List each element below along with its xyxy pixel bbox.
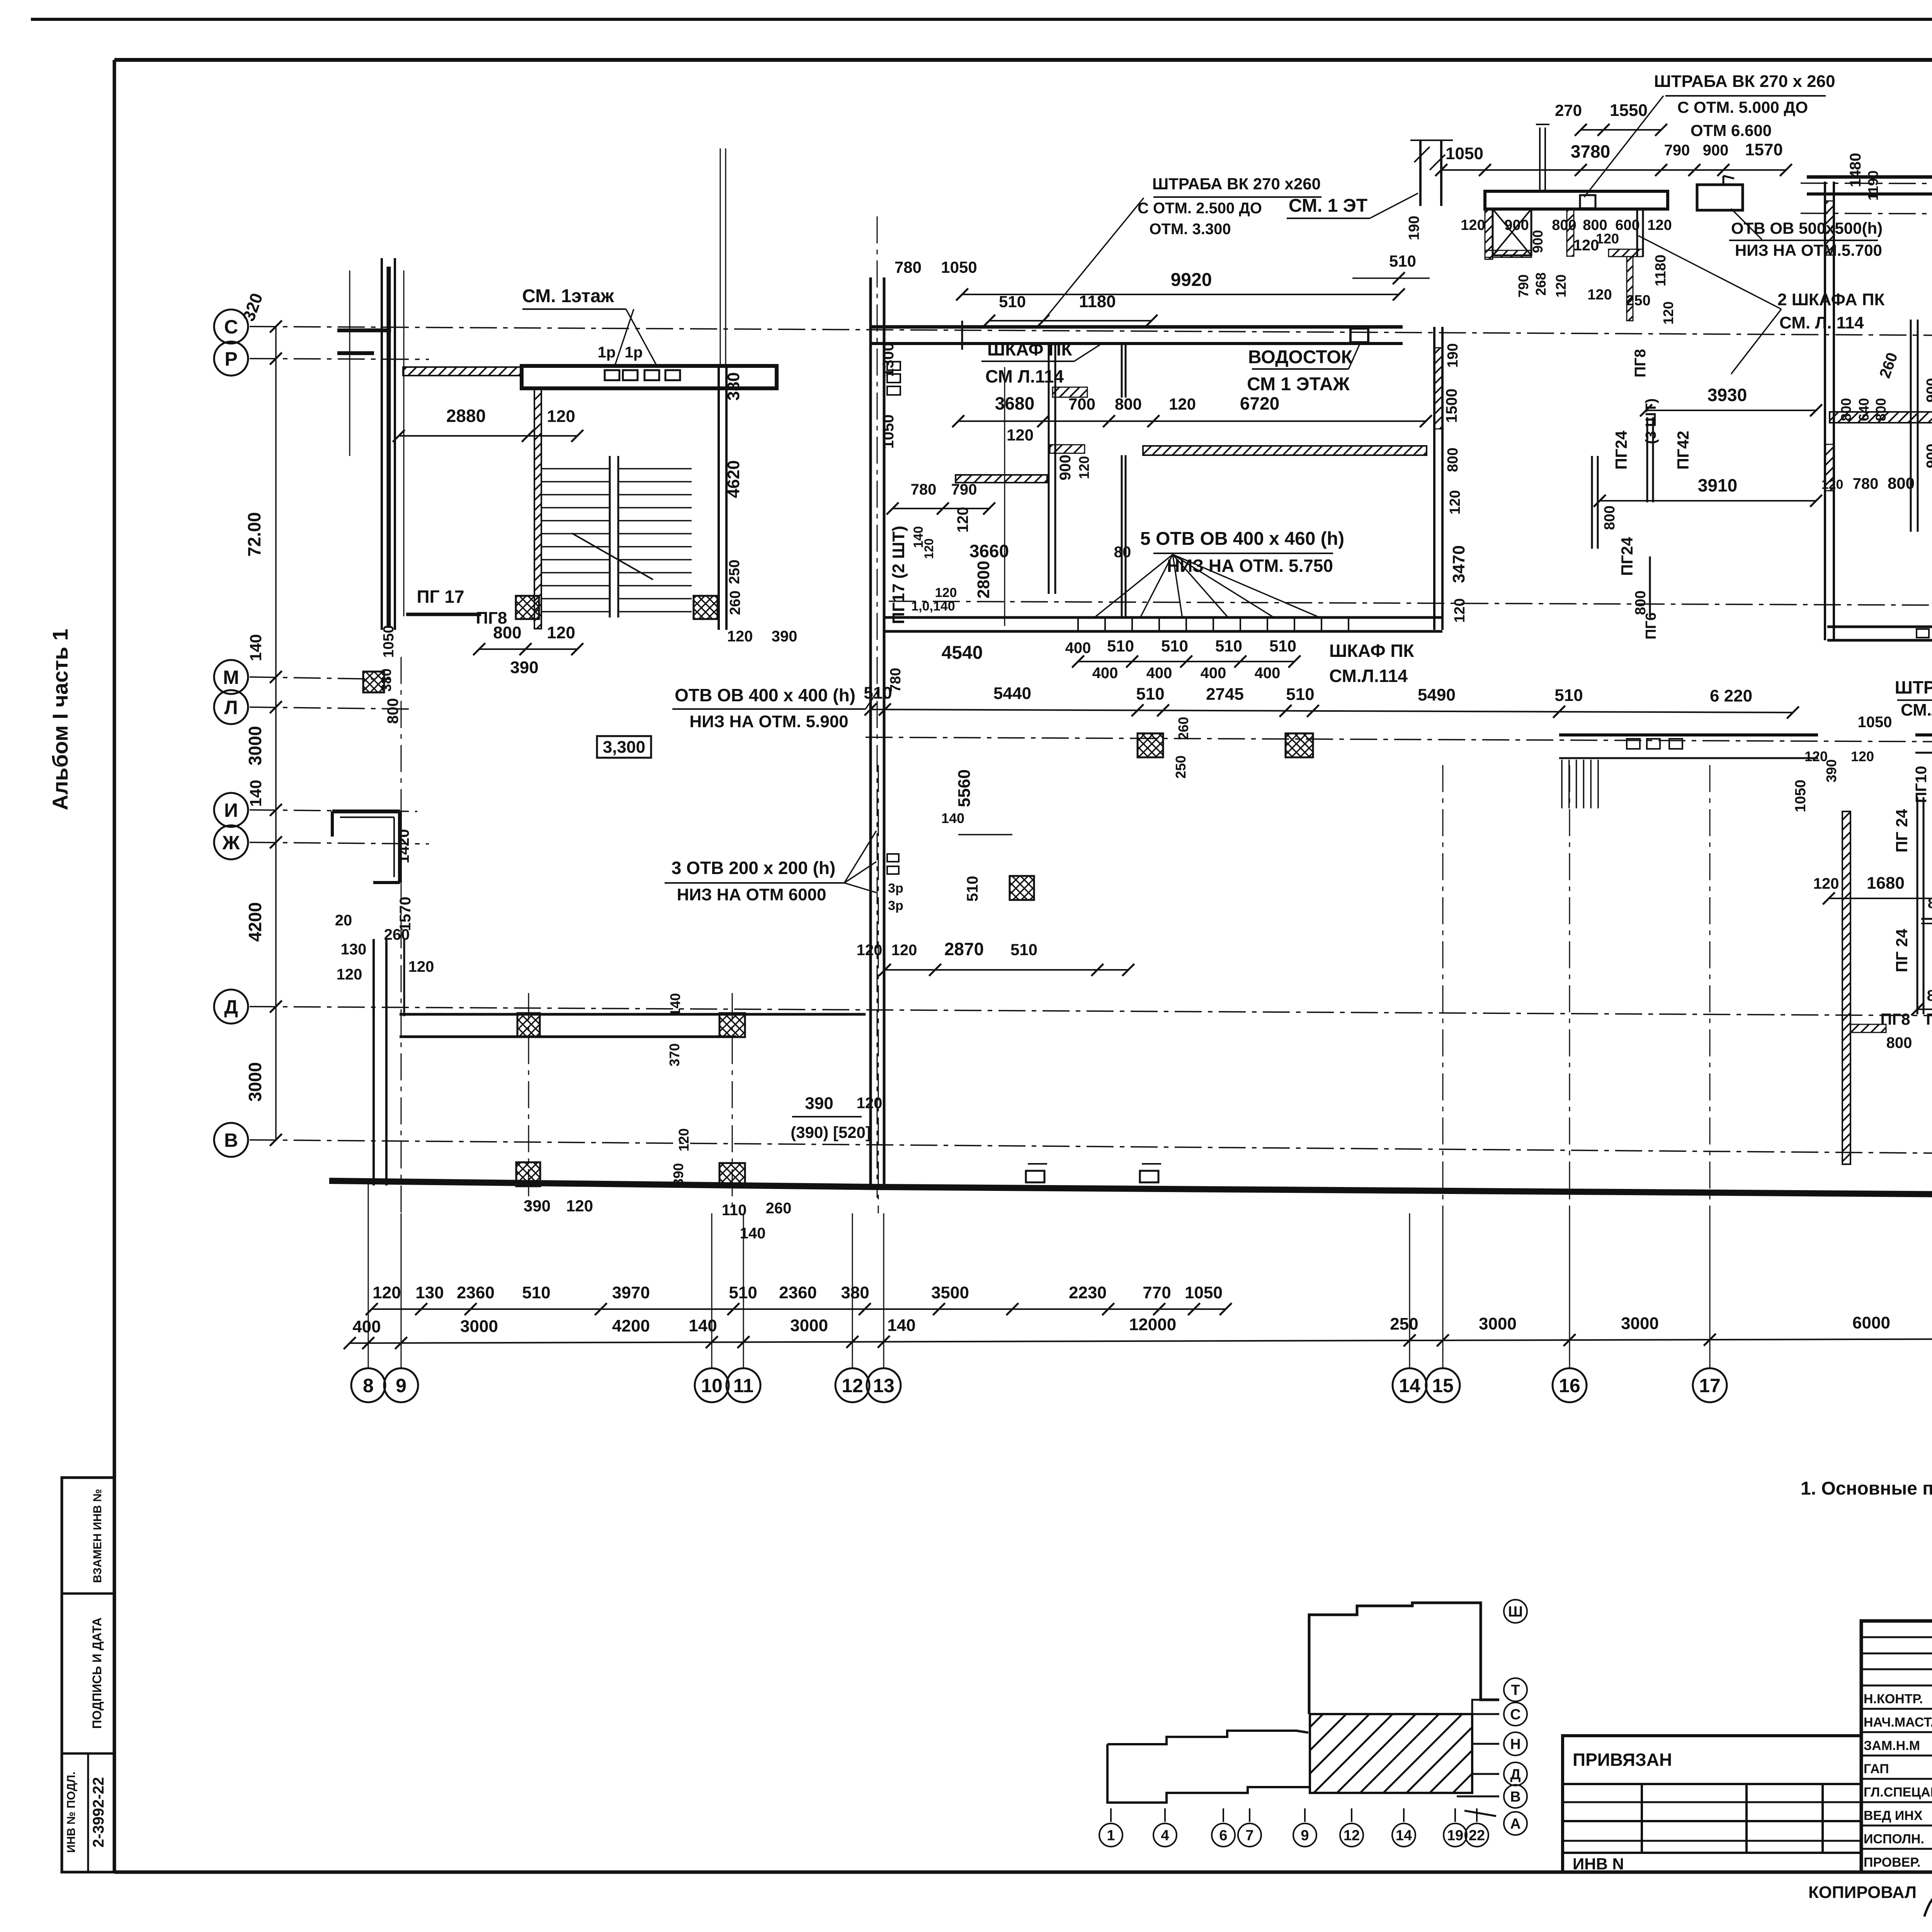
svg-text:400: 400 <box>1092 665 1118 682</box>
svg-text:ОТМ. 3.300: ОТМ. 3.300 <box>1149 221 1231 238</box>
svg-text:СМ Л.114: СМ Л.114 <box>985 366 1064 386</box>
svg-text:390: 390 <box>772 628 798 645</box>
svg-text:140: 140 <box>667 993 683 1016</box>
svg-text:510: 510 <box>522 1283 550 1302</box>
svg-text:120: 120 <box>676 1128 692 1151</box>
svg-text:1050: 1050 <box>381 625 397 658</box>
svg-text:14: 14 <box>1399 1375 1420 1396</box>
dims top vent <box>1441 169 1786 171</box>
key plan letter circles <box>1504 1600 1527 1623</box>
hatched column M row <box>363 672 384 692</box>
svg-text:В: В <box>224 1129 238 1151</box>
svg-text:1570: 1570 <box>1745 140 1783 159</box>
svg-text:ШТРАБА ВК 270 х260: ШТРАБА ВК 270 х260 <box>1152 175 1321 193</box>
svg-text:Л: Л <box>224 697 238 718</box>
svg-text:800: 800 <box>1115 395 1142 413</box>
horizontal PG42 wall <box>1921 918 1932 920</box>
svg-text:А: А <box>1510 1816 1520 1832</box>
svg-text:1050: 1050 <box>1793 780 1809 813</box>
svg-text:260: 260 <box>766 1200 792 1217</box>
svg-text:120: 120 <box>547 407 575 426</box>
vent main band <box>1485 191 1668 209</box>
vertical axis extension lines to bottom circles <box>368 1213 369 1368</box>
svg-text:270: 270 <box>1555 101 1582 119</box>
svg-text:260: 260 <box>727 590 743 615</box>
svg-text:510: 510 <box>1107 637 1134 655</box>
svg-text:СМ.Л.114: СМ.Л.114 <box>1329 666 1408 686</box>
wall: D row double wall <box>400 1013 866 1016</box>
key plan left steps bottom <box>1107 1744 1310 1803</box>
svg-text:12000: 12000 <box>1129 1315 1176 1334</box>
svg-text:В: В <box>1510 1789 1520 1805</box>
svg-text:ПГ-8: ПГ-8 <box>1926 1010 1932 1028</box>
svg-text:510: 510 <box>1286 685 1314 704</box>
K row right walls + stair <box>1559 733 1818 736</box>
svg-text:3680: 3680 <box>995 393 1034 413</box>
svg-text:790: 790 <box>951 481 977 498</box>
hatched columns on V wall <box>516 1162 540 1186</box>
svg-text:С ОТМ. 2.500 ДО: С ОТМ. 2.500 ДО <box>1138 200 1262 217</box>
svg-text:СМ. Л. 114: СМ. Л. 114 <box>1779 313 1864 332</box>
svg-text:8: 8 <box>363 1375 374 1396</box>
svg-text:2800: 2800 <box>974 561 993 599</box>
svg-text:510: 510 <box>864 684 892 702</box>
interior horizontal hatched wall <box>1830 412 1932 423</box>
svg-text:ПГ6: ПГ6 <box>1643 612 1659 639</box>
wall: long hatched corridor wall <box>1143 446 1427 455</box>
svg-text:3930: 3930 <box>1708 385 1747 405</box>
svg-text:700: 700 <box>1068 395 1095 413</box>
wall: short hatched wall <box>956 475 1047 483</box>
axis line D <box>250 1007 1932 1019</box>
svg-text:640: 640 <box>1856 398 1872 421</box>
svg-text:140: 140 <box>689 1316 717 1335</box>
svg-text:780: 780 <box>911 481 937 498</box>
svg-text:12: 12 <box>842 1375 863 1396</box>
wall: left block verticals <box>372 939 375 1185</box>
svg-text:9: 9 <box>1301 1828 1309 1844</box>
svg-text:120: 120 <box>922 538 936 559</box>
svg-text:250: 250 <box>1626 293 1650 309</box>
svg-text:ПОДПИСЬ И ДАТА: ПОДПИСЬ И ДАТА <box>90 1617 104 1729</box>
svg-text:120: 120 <box>935 585 957 600</box>
key plan left steps top <box>1107 1731 1308 1744</box>
svg-text:ВЗАМЕН ИНВ №: ВЗАМЕН ИНВ № <box>91 1489 104 1583</box>
wall: stair left hatched wall <box>534 388 541 629</box>
svg-text:1180: 1180 <box>1653 255 1669 286</box>
svg-text:ПГ24: ПГ24 <box>1612 430 1630 469</box>
svg-text:120: 120 <box>1821 477 1844 492</box>
svg-text:140: 140 <box>740 1225 766 1242</box>
axis line V <box>250 1140 1932 1158</box>
svg-text:ПГ10: ПГ10 <box>1913 766 1930 803</box>
svg-text:140: 140 <box>941 810 964 826</box>
svg-text:ВОДОСТОК: ВОДОСТОК <box>1248 347 1353 367</box>
shkaf boxes on hall wall <box>887 362 900 370</box>
svg-text:ИНВ N: ИНВ N <box>1573 1855 1624 1873</box>
svg-text:1420: 1420 <box>395 829 412 864</box>
wall: hatched strip to stair <box>403 367 522 376</box>
svg-text:1050: 1050 <box>1858 714 1892 731</box>
svg-text:510: 510 <box>1215 637 1242 655</box>
wall: bottom-right left hatched wall <box>1842 811 1850 1164</box>
bottom axis circles <box>351 1368 385 1402</box>
axis line L <box>250 707 410 709</box>
svg-text:790: 790 <box>1664 142 1690 159</box>
svg-text:Ш: Ш <box>1508 1604 1523 1620</box>
svg-text:390: 390 <box>805 1094 833 1113</box>
title block outer <box>1861 1621 1932 1872</box>
svg-text:3 ОТВ 200 х 200 (h): 3 ОТВ 200 х 200 (h) <box>672 858 835 878</box>
wall: interior vertical thin <box>1121 343 1123 398</box>
svg-text:900: 900 <box>1504 217 1529 233</box>
svg-text:4200: 4200 <box>245 902 265 942</box>
svg-text:Р: Р <box>224 348 237 370</box>
svg-text:СМ 1 ЭТАЖ: СМ 1 ЭТАЖ <box>1247 374 1350 395</box>
svg-text:1180: 1180 <box>1079 292 1116 311</box>
svg-text:2360: 2360 <box>457 1283 495 1302</box>
svg-text:3970: 3970 <box>612 1283 650 1302</box>
svg-text:120: 120 <box>1169 395 1196 413</box>
svg-text:120: 120 <box>547 623 575 642</box>
vent shaft left <box>1419 140 1422 206</box>
svg-text:ШТРАБА ВК: ШТРАБА ВК <box>1895 677 1932 697</box>
svg-text:1500: 1500 <box>1443 389 1460 423</box>
axis line M <box>250 677 390 679</box>
svg-text:ЗАМ.Н.М: ЗАМ.Н.М <box>1864 1738 1920 1753</box>
wall: I/Zh protrusion <box>332 810 400 813</box>
svg-text:3р: 3р <box>888 898 903 913</box>
svg-text:120: 120 <box>1573 237 1599 254</box>
svg-text:380: 380 <box>724 372 743 400</box>
svg-text:800: 800 <box>1927 987 1932 1004</box>
svg-text:380: 380 <box>378 668 394 692</box>
stair treads right flight <box>618 468 692 469</box>
svg-text:800: 800 <box>1552 217 1576 233</box>
svg-text:Т: Т <box>1511 1682 1520 1699</box>
left side table <box>62 1478 114 1872</box>
svg-text:120: 120 <box>954 507 971 533</box>
svg-text:900: 900 <box>1530 230 1546 253</box>
svg-text:6 220: 6 220 <box>1710 686 1752 705</box>
wall stub PG17 <box>406 613 481 616</box>
svg-text:1300: 1300 <box>880 343 897 377</box>
svg-text:400: 400 <box>1146 665 1172 682</box>
svg-text:380: 380 <box>841 1283 869 1302</box>
svg-text:510: 510 <box>1269 637 1296 655</box>
svg-text:120: 120 <box>1553 274 1569 298</box>
svg-text:ИСПОЛН.: ИСПОЛН. <box>1864 1832 1924 1846</box>
svg-text:3500: 3500 <box>931 1283 969 1302</box>
svg-text:ВЕД ИНХ: ВЕД ИНХ <box>1864 1808 1923 1823</box>
svg-text:СМ.Л.15: СМ.Л.15 <box>1901 701 1932 719</box>
wall: upper-left long vertical double wall <box>381 258 383 630</box>
vodostok box on top band <box>1350 328 1368 342</box>
svg-text:ГАП: ГАП <box>1864 1762 1889 1776</box>
key plan bottom circles <box>1099 1823 1122 1847</box>
inner drawing frame <box>114 58 1932 62</box>
svg-text:790: 790 <box>1515 274 1531 298</box>
svg-text:190: 190 <box>1406 216 1422 240</box>
svg-text:Альбом I часть 1: Альбом I часть 1 <box>48 629 72 810</box>
svg-text:900: 900 <box>1924 444 1932 468</box>
svg-text:770: 770 <box>1143 1283 1171 1302</box>
svg-text:КОПИРОВАЛ: КОПИРОВАЛ <box>1808 1883 1917 1902</box>
svg-text:1: 1 <box>1107 1828 1115 1844</box>
dim 2880 120 <box>399 435 577 437</box>
right vert wall pair <box>1636 209 1638 257</box>
wall: hall left long wall <box>869 277 872 1184</box>
svg-text:13: 13 <box>873 1375 895 1396</box>
thin pole <box>1539 128 1541 191</box>
key plan upper outline <box>1309 1603 1499 1714</box>
svg-text:3000: 3000 <box>245 726 265 765</box>
svg-text:780: 780 <box>895 258 922 276</box>
svg-text:1. Основные примечания по кла: 1. Основные примечания по кладке см. л. … <box>1801 1478 1932 1499</box>
svg-text:120: 120 <box>857 942 883 959</box>
left axis circles <box>214 310 248 344</box>
svg-text:2 ШКАФА ПК: 2 ШКАФА ПК <box>1777 290 1885 309</box>
svg-text:9: 9 <box>396 1375 406 1396</box>
svg-text:260: 260 <box>384 926 410 943</box>
bottom dimension chain main <box>350 1338 1932 1343</box>
svg-text:Ж: Ж <box>222 832 240 854</box>
svg-text:130: 130 <box>415 1283 444 1302</box>
svg-text:110: 110 <box>722 1202 747 1219</box>
svg-text:250: 250 <box>1173 755 1189 779</box>
svg-text:190: 190 <box>1445 343 1461 367</box>
svg-text:2880: 2880 <box>446 406 486 426</box>
svg-text:1680: 1680 <box>1867 874 1905 893</box>
svg-text:3780: 3780 <box>1571 141 1610 162</box>
svg-text:Д: Д <box>224 996 238 1018</box>
window mullions on bottom wall <box>1077 617 1079 631</box>
svg-text:510: 510 <box>1161 637 1188 655</box>
svg-text:6720: 6720 <box>1240 393 1279 413</box>
wall: interior vertical wall PG17 <box>1048 343 1050 594</box>
svg-text:22: 22 <box>1469 1828 1485 1844</box>
verticals PG24 <box>1917 797 1918 1014</box>
svg-text:3000: 3000 <box>790 1316 828 1335</box>
axis line I <box>250 810 417 811</box>
wall: right block left wall <box>1824 182 1826 640</box>
vertical hatched strip <box>1567 209 1574 256</box>
extension line x2600 <box>1004 367 1005 626</box>
interior verticals 190 <box>1910 320 1912 532</box>
wall: C/P corner walls <box>337 328 391 332</box>
svg-text:250: 250 <box>1390 1315 1418 1333</box>
svg-text:900: 900 <box>1703 142 1729 159</box>
wall: V row bottom right part <box>880 1187 1932 1196</box>
K row dimension chain <box>871 709 1793 713</box>
svg-text:3470: 3470 <box>1449 545 1468 583</box>
svg-text:ПГ 24: ПГ 24 <box>1893 929 1911 972</box>
svg-text:120: 120 <box>1596 231 1619 247</box>
svg-text:120: 120 <box>1447 490 1463 514</box>
svg-text:800: 800 <box>1633 590 1649 615</box>
svg-text:ШКАФ ПК: ШКАФ ПК <box>987 339 1072 359</box>
svg-text:ШКАФ ПК: ШКАФ ПК <box>1329 641 1414 661</box>
svg-text:1р: 1р <box>625 344 643 361</box>
svg-text:120: 120 <box>1587 287 1612 303</box>
svg-text:3660: 3660 <box>969 541 1009 561</box>
svg-text:ИНВ № ПОДЛ.: ИНВ № ПОДЛ. <box>65 1772 78 1853</box>
svg-text:2745: 2745 <box>1206 685 1244 704</box>
right vertical hatched wall <box>1627 257 1633 321</box>
hatched columns on D wall <box>517 1013 540 1037</box>
svg-text:10: 10 <box>701 1375 723 1396</box>
svg-text:(3 ШТ): (3 ШТ) <box>1643 398 1659 444</box>
axis line U <box>1801 183 1932 185</box>
svg-text:ОТМ 6.600: ОТМ 6.600 <box>1690 121 1772 139</box>
svg-text:800: 800 <box>384 698 401 724</box>
svg-text:1480: 1480 <box>1847 153 1864 187</box>
svg-text:С ОТМ. 5.000 ДО: С ОТМ. 5.000 ДО <box>1677 98 1808 116</box>
wall: stair block top band <box>522 366 777 388</box>
svg-text:140: 140 <box>247 780 265 807</box>
svg-text:800: 800 <box>1888 474 1915 492</box>
svg-text:6: 6 <box>1219 1828 1227 1844</box>
svg-text:СМ. 1 ЭТ: СМ. 1 ЭТ <box>1289 196 1367 216</box>
svg-text:ПГ8: ПГ8 <box>1632 349 1649 378</box>
hatched column right <box>694 596 718 619</box>
axis line K <box>866 737 1932 744</box>
svg-text:3000: 3000 <box>1621 1314 1659 1333</box>
svg-text:3000: 3000 <box>245 1062 265 1102</box>
svg-text:11: 11 <box>733 1375 754 1396</box>
interior wall continuation below corridor <box>1121 455 1123 617</box>
svg-text:390: 390 <box>510 658 538 677</box>
wall: stair right wall <box>718 366 720 630</box>
svg-text:9920: 9920 <box>1171 270 1212 290</box>
svg-text:268: 268 <box>1533 272 1549 296</box>
svg-text:14: 14 <box>1396 1828 1412 1844</box>
svg-text:19: 19 <box>1447 1828 1463 1844</box>
svg-text:120: 120 <box>1007 426 1034 444</box>
svg-text:3р: 3р <box>888 881 903 896</box>
svg-text:120: 120 <box>566 1197 593 1215</box>
svg-text:20: 20 <box>335 912 352 929</box>
wall: central block bottom wall N row <box>884 616 1442 619</box>
svg-text:3000: 3000 <box>460 1317 498 1336</box>
svg-text:400: 400 <box>1201 665 1226 682</box>
svg-text:17: 17 <box>1699 1375 1721 1396</box>
svg-text:510: 510 <box>999 293 1026 311</box>
X-braced box <box>1493 209 1531 255</box>
svg-text:2360: 2360 <box>779 1283 817 1302</box>
svg-text:510: 510 <box>1554 686 1583 705</box>
svg-text:ПГ17 (2 ШТ): ПГ17 (2 ШТ) <box>889 526 908 624</box>
wall: central block right wall <box>1433 327 1435 630</box>
svg-text:800: 800 <box>1873 398 1889 421</box>
svg-text:72.00: 72.00 <box>244 512 264 556</box>
svg-text:400: 400 <box>352 1317 381 1336</box>
svg-text:5560: 5560 <box>955 769 974 807</box>
bottom wall door jogs <box>1026 1171 1044 1182</box>
svg-text:120: 120 <box>1647 217 1672 233</box>
svg-text:120: 120 <box>1452 598 1468 622</box>
svg-text:120: 120 <box>1660 301 1676 325</box>
svg-text:ПГ 17: ПГ 17 <box>417 587 464 607</box>
svg-text:1050: 1050 <box>880 415 897 449</box>
wall: right block bottom N row <box>1827 626 1932 628</box>
svg-text:140: 140 <box>247 634 265 661</box>
svg-text:510: 510 <box>1136 684 1164 703</box>
svg-text:510: 510 <box>729 1283 757 1302</box>
svg-text:800: 800 <box>1602 505 1618 530</box>
svg-text:С: С <box>224 316 238 338</box>
wall: V row bottom wall left part <box>329 1181 880 1187</box>
door rect with flag <box>1697 185 1743 210</box>
svg-text:16: 16 <box>1559 1375 1580 1396</box>
svg-text:6000: 6000 <box>1852 1313 1890 1332</box>
hatched column mid hall <box>1010 876 1034 900</box>
K wall right of gap <box>1915 733 1932 736</box>
svg-text:120: 120 <box>1461 217 1485 233</box>
svg-text:800: 800 <box>493 623 521 642</box>
svg-text:400: 400 <box>1255 665 1281 682</box>
svg-text:2230: 2230 <box>1069 1283 1107 1302</box>
stair newel wall <box>609 456 611 617</box>
svg-text:370: 370 <box>667 1043 682 1066</box>
svg-text:1050: 1050 <box>1446 144 1483 163</box>
svg-text:НИЗ НА ОТМ. 5.900: НИЗ НА ОТМ. 5.900 <box>689 712 848 731</box>
wall: right block top band U row <box>1807 175 1932 179</box>
hatched column PG8 <box>516 596 539 619</box>
svg-text:1,0,140: 1,0,140 <box>911 599 955 614</box>
sheet outer border <box>31 18 1932 21</box>
axis line Zh <box>250 842 429 844</box>
vent hatched column <box>1485 209 1493 259</box>
dims below stair <box>479 648 577 650</box>
svg-text:390: 390 <box>670 1163 686 1186</box>
svg-text:С: С <box>1510 1707 1520 1723</box>
svg-text:ПРИВЯЗАН: ПРИВЯЗАН <box>1573 1750 1672 1770</box>
svg-text:НИЗ НА ОТМ 6000: НИЗ НА ОТМ 6000 <box>677 885 827 904</box>
svg-text:120: 120 <box>1804 748 1828 764</box>
svg-text:ОТВ ОВ 500х500(h): ОТВ ОВ 500х500(h) <box>1731 219 1883 237</box>
svg-text:ПГ24: ПГ24 <box>1618 537 1636 576</box>
svg-text:5490: 5490 <box>1418 685 1456 704</box>
svg-text:510: 510 <box>1389 252 1416 270</box>
svg-text:ПРОВЕР.: ПРОВЕР. <box>1864 1855 1920 1870</box>
svg-text:1050: 1050 <box>941 258 977 276</box>
svg-text:390: 390 <box>524 1197 551 1215</box>
svg-text:120: 120 <box>727 628 753 645</box>
svg-text:4200: 4200 <box>612 1316 650 1335</box>
svg-text:120: 120 <box>337 966 362 983</box>
hatched columns on K axis <box>1138 733 1163 757</box>
svg-text:250: 250 <box>726 560 743 584</box>
svg-text:800: 800 <box>1838 398 1854 421</box>
svg-text:140: 140 <box>887 1316 915 1335</box>
thin top rows <box>1861 1636 1932 1638</box>
svg-text:1р: 1р <box>598 344 616 361</box>
svg-text:900: 900 <box>1924 378 1932 402</box>
stair treads left flight <box>541 468 611 469</box>
key plan leader lines right <box>1472 1743 1499 1745</box>
svg-text:260: 260 <box>1175 717 1191 740</box>
attachment table <box>1563 1736 1861 1872</box>
column centerlines bottom-left <box>528 993 529 1213</box>
svg-text:2870: 2870 <box>944 939 984 959</box>
axis line T <box>1801 213 1932 216</box>
svg-text:120: 120 <box>891 942 917 959</box>
svg-text:120: 120 <box>1076 456 1092 479</box>
svg-text:120: 120 <box>1813 875 1839 892</box>
svg-text:4: 4 <box>1161 1828 1169 1844</box>
axis line P <box>250 359 429 359</box>
